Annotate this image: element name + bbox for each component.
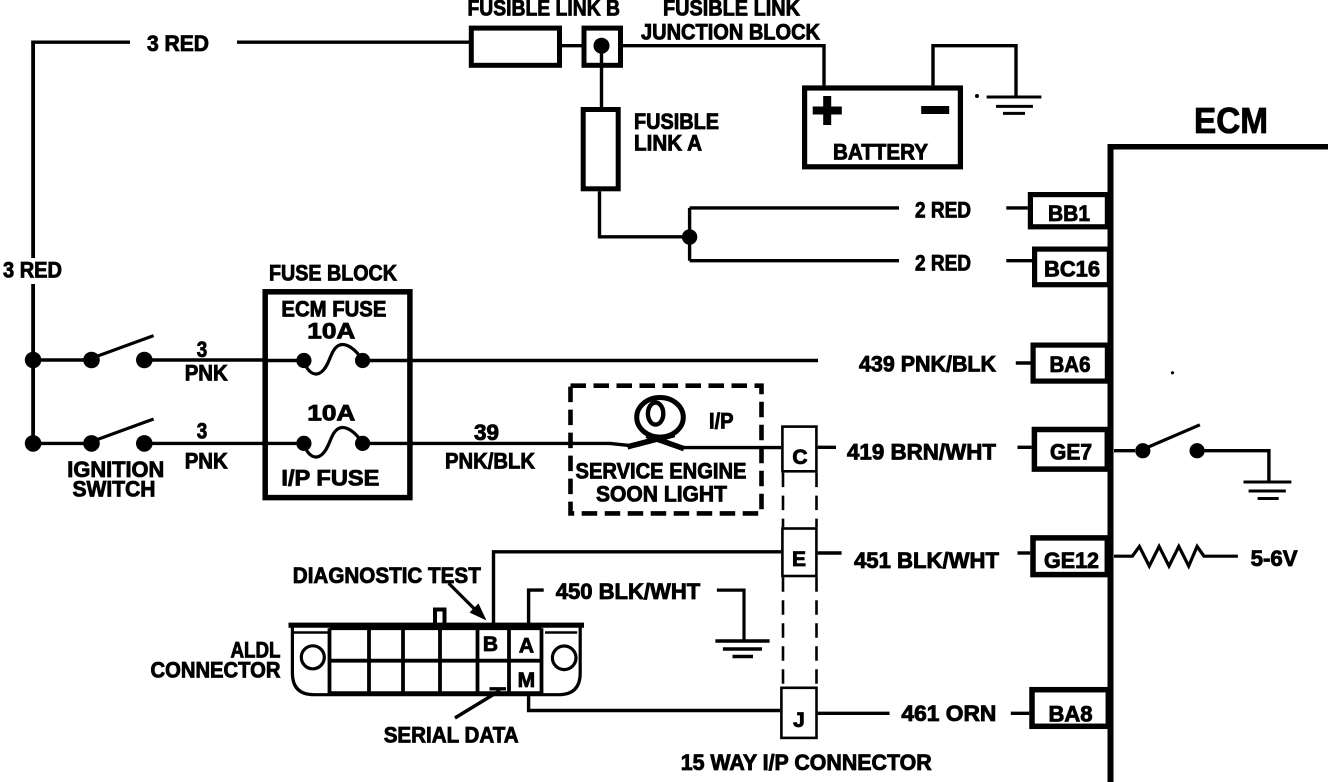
fusible link junction block (584, 28, 621, 65)
label 450 BLK/WHT leader (529, 590, 544, 623)
wire junction riser (688, 208, 691, 261)
serial data pointer (455, 691, 500, 719)
fusible link B (471, 28, 559, 65)
connector pin E box (782, 529, 816, 577)
svg-text:A: A (519, 635, 534, 658)
svg-text:450 BLK/WHT: 450 BLK/WHT (556, 579, 701, 604)
ECM pin GE7 (1034, 430, 1107, 470)
15-way connector dashed line left (C to E) (782, 473, 785, 528)
ECM pin GE12 (1033, 538, 1107, 575)
ALDL pin grid (330, 628, 542, 693)
switch S3 left dot (1135, 443, 1150, 458)
wire 439 PNK/BLK (363, 359, 818, 362)
svg-text:BB1: BB1 (1048, 201, 1090, 226)
wire fuse row1 inside block (263, 359, 304, 362)
wire junction block to battery (623, 46, 824, 86)
fuse F2 I/P FUSE 10A (296, 436, 311, 451)
ignition switch row 1 node dot (25, 352, 42, 369)
svg-text:15 WAY I/P CONNECTOR: 15 WAY I/P CONNECTOR (681, 750, 932, 775)
svg-text:GE7: GE7 (1050, 440, 1092, 465)
svg-text:SERVICE ENGINE: SERVICE ENGINE (576, 459, 747, 484)
resistor R1 (1114, 546, 1238, 566)
wire 2 RED lower stub (1006, 259, 1032, 262)
ALDL connector top edge (thick) (289, 623, 585, 628)
lamp L1 loop right tail (647, 435, 685, 448)
svg-text:I/P: I/P (709, 408, 734, 433)
svg-text:FUSE BLOCK: FUSE BLOCK (269, 261, 397, 286)
service engine soon light dashed box (571, 386, 762, 514)
svg-text:B: B (483, 633, 498, 656)
fuse block rectangle (265, 292, 410, 498)
svg-text:BA6: BA6 (1050, 352, 1091, 377)
fuse F1 ECM FUSE 10A (296, 353, 311, 368)
switch S1 blade (95, 336, 154, 357)
fusible link A (583, 110, 618, 189)
wire left vertical drop lower (31, 284, 35, 443)
svg-text:2 RED: 2 RED (915, 198, 971, 223)
switch S2 left contact dot (83, 435, 100, 452)
connector pin C box (782, 427, 816, 472)
wire lamp to connector C (684, 446, 782, 449)
ECM main vertical line (1108, 144, 1114, 782)
ALDL screw hole left (301, 646, 324, 669)
switch S1 right contact dot (136, 352, 153, 369)
svg-text:5-6V: 5-6V (1251, 546, 1298, 571)
wire 3 RED top horizontal left segment (31, 41, 130, 44)
svg-text:LINK A: LINK A (634, 131, 702, 156)
ALDL connector body outline (292, 623, 580, 695)
ECM pin BC16 (1035, 249, 1110, 285)
svg-text:PNK/BLK: PNK/BLK (445, 449, 535, 474)
wire link B to junction block (562, 44, 582, 47)
svg-text:419 BRN/WHT: 419 BRN/WHT (847, 440, 997, 465)
stray mark dot (975, 94, 979, 98)
lamp L1 inner loop (648, 403, 663, 425)
wire 3 RED top horizontal right segment (237, 41, 469, 44)
lamp L1 loop left tail (628, 435, 675, 447)
ground (450 BLK/WHT) (715, 641, 769, 657)
svg-text:SERIAL DATA: SERIAL DATA (384, 723, 519, 748)
ignition switch row 2 node dot (25, 435, 42, 452)
svg-text:39: 39 (474, 420, 499, 445)
svg-text:439 PNK/BLK: 439 PNK/BLK (859, 352, 996, 377)
svg-text:3 RED: 3 RED (147, 31, 209, 56)
battery B1 (805, 88, 961, 167)
ground (battery) (987, 97, 1042, 113)
svg-text:C: C (792, 446, 807, 469)
wire 2 RED upper (690, 206, 899, 209)
wire junction block down to fusible link A (600, 46, 603, 107)
wire 439 stub (1016, 361, 1032, 364)
15-way connector dashed line right (C to E) (815, 473, 818, 528)
15-way connector dashed line right (E to J) (815, 577, 818, 686)
svg-text:DIAGNOSTIC TEST: DIAGNOSTIC TEST (293, 563, 482, 588)
wire GE7 to switch (1114, 449, 1135, 452)
switch S2 blade (95, 419, 154, 440)
wire switch row1 to fuse block (33, 358, 263, 361)
svg-text:ECM: ECM (1194, 100, 1268, 141)
wire 2 RED upper stub (1006, 206, 1028, 209)
svg-text:I/P FUSE: I/P FUSE (281, 466, 379, 491)
svg-text:PNK: PNK (185, 449, 228, 474)
wire 419 stub (1018, 446, 1032, 449)
ECM top edge (1108, 144, 1328, 150)
svg-text:SOON LIGHT: SOON LIGHT (596, 482, 728, 507)
wire 451 from E (818, 551, 842, 554)
svg-text:PNK: PNK (185, 361, 228, 386)
15-way connector dashed line left (E to J) (782, 577, 785, 686)
svg-text:SWITCH: SWITCH (73, 477, 156, 502)
svg-text:M: M (518, 669, 536, 692)
wire fusible link A down (600, 191, 689, 237)
svg-text:10A: 10A (307, 319, 355, 344)
svg-text:J: J (793, 709, 805, 732)
switch S2 right contact dot (136, 435, 153, 452)
svg-text:2 RED: 2 RED (915, 251, 971, 276)
arrow diagnostic test (449, 583, 478, 612)
connector pin J box (781, 688, 816, 738)
ECM pin BA6 (1033, 345, 1107, 381)
wire 419 from C (818, 446, 836, 449)
wire switch row2 to fuse block (33, 442, 263, 445)
wire E to ALDL pin B (494, 552, 782, 623)
wire 451 stub (1018, 551, 1031, 554)
svg-text:BC16: BC16 (1044, 257, 1100, 282)
svg-text:3: 3 (197, 337, 208, 362)
switch S1 left contact dot (83, 352, 100, 369)
wire fuse row2 inside block (263, 442, 304, 445)
svg-text:461 ORN: 461 ORN (901, 701, 996, 726)
wire left vertical drop upper (31, 41, 35, 259)
svg-text:FUSIBLE LINK: FUSIBLE LINK (663, 0, 800, 21)
svg-text:BATTERY: BATTERY (833, 140, 928, 165)
node junction dot 2 RED (682, 229, 697, 244)
svg-text:BA8: BA8 (1049, 702, 1093, 727)
battery plus terminal symbol (813, 96, 842, 125)
ALDL screw hole right (552, 646, 576, 670)
svg-text:GE12: GE12 (1044, 548, 1099, 573)
ECM pin BA8 (1032, 690, 1108, 727)
wire 2 RED lower (690, 259, 899, 262)
svg-text:3: 3 (197, 419, 208, 444)
svg-text:451 BLK/WHT: 451 BLK/WHT (854, 548, 1000, 573)
wire 461 stub (1011, 712, 1029, 715)
ALDL key tab top (435, 610, 445, 624)
wire 461 from J (818, 712, 890, 715)
wire 39 PNK/BLK fuse2 to lamp (363, 443, 630, 445)
svg-text:JUNCTION BLOCK: JUNCTION BLOCK (641, 20, 820, 45)
lamp L1 outer ring (637, 398, 684, 438)
svg-text:3 RED: 3 RED (3, 258, 62, 283)
switch S3 right dot (1190, 443, 1205, 458)
stray mark dot right (1171, 371, 1174, 374)
wire battery negative to ground (933, 46, 1016, 97)
ALDL inner lip right (545, 631, 577, 634)
wire ALDL pin M to connector J (529, 693, 781, 711)
ECM pin BB1 (1030, 195, 1107, 227)
ALDL inner lip left (294, 631, 330, 634)
svg-text:E: E (792, 548, 806, 571)
svg-text:FUSIBLE LINK B: FUSIBLE LINK B (468, 0, 621, 21)
svg-text:10A: 10A (307, 401, 355, 426)
ground (GE7 switch) (1244, 482, 1292, 499)
svg-text:CONNECTOR: CONNECTOR (151, 658, 281, 683)
wire switch to ground (1205, 451, 1269, 481)
node junction block dot (594, 38, 610, 54)
battery minus terminal symbol (921, 106, 949, 114)
wire 450 to ground (717, 590, 744, 640)
switch S3 blade (1146, 425, 1200, 448)
